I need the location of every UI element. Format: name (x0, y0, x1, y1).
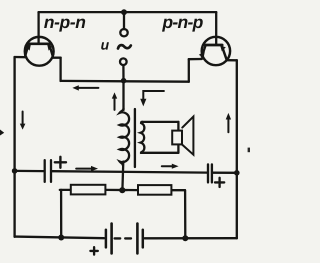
wire left resistor drop (60, 190, 62, 238)
capacitor C2 plus sign (215, 178, 224, 187)
transistor Q1 collector slant (49, 44, 53, 56)
wire speaker loop right upper (177, 122, 179, 131)
wire Q1 right lead (52, 57, 60, 59)
wire Q2 left lead (189, 58, 202, 61)
battery B dash 1 (115, 237, 121, 239)
arrow current down left rail (22, 112, 24, 125)
wire vertical Q2 to mid node (188, 59, 190, 81)
wire bottom right segment (145, 237, 237, 239)
source terminal upper (120, 29, 127, 36)
arrow current right under speaker (162, 165, 173, 167)
wire speaker loop right lower (177, 144, 179, 153)
scan speck right edge (248, 148, 250, 153)
transistor Q1 base bar (28, 42, 50, 45)
transistor Q2 collector arrow (220, 46, 226, 52)
capacitor C1 plus sign (55, 157, 66, 168)
resistor R2 (138, 185, 171, 195)
label n-p-n (44, 19, 85, 32)
wire base lead Q2 (215, 12, 217, 45)
wire resistor row left lead (60, 189, 71, 191)
wire resistor row middle lead (105, 189, 138, 192)
node top rail junction (121, 9, 127, 15)
battery B short plate right (142, 230, 145, 248)
wire Q1 left lead (15, 56, 27, 59)
speaker LS cone (182, 117, 193, 155)
capacitor C2 plate right (211, 164, 213, 182)
resistor R1 (71, 185, 106, 195)
source terminal lower (120, 58, 127, 65)
wire primary top lead (122, 81, 124, 110)
node right rail capacitor junction (234, 170, 240, 176)
source tilde symbol (118, 45, 131, 48)
wire capacitor row middle (52, 171, 207, 172)
wire capacitor row right (213, 172, 237, 174)
battery B long plate right (136, 224, 139, 254)
wire capacitor row left (15, 170, 44, 173)
transformer T secondary winding (141, 122, 145, 153)
capacitor C1 plate left (44, 160, 46, 182)
wire stub to source top terminal (123, 12, 125, 29)
wire speaker loop top (142, 121, 179, 123)
transistor Q2 emitter arrow (199, 52, 205, 58)
arrow current corner down right (143, 91, 164, 100)
node resistor center junction (119, 187, 125, 193)
wire right rail (236, 60, 238, 238)
wire top rail (39, 11, 217, 13)
transistor Q2 p-n-p circle (202, 37, 230, 65)
transistor Q2 emitter slant (202, 45, 206, 57)
transformer T core (134, 109, 136, 167)
scan speck left edge (0, 130, 4, 136)
transistor Q1 emitter arrow (25, 45, 30, 51)
wire vertical Q1 to mid node (59, 58, 61, 81)
wire stub from source bottom terminal (122, 65, 124, 81)
wire base lead Q1 (37, 12, 39, 43)
wire speaker loop bottom (141, 152, 178, 154)
transistor Q1 emitter slant (25, 44, 28, 56)
wire bottom left segment (15, 237, 104, 239)
wire left rail (13, 57, 15, 237)
speaker LS driver box (172, 131, 182, 145)
label u (101, 42, 109, 50)
arrow current up right rail (227, 119, 229, 133)
arrow current up primary (114, 98, 116, 110)
wire right resistor drop (184, 190, 186, 238)
label p-n-p (162, 19, 203, 32)
transistor Q2 collector slant (222, 45, 227, 59)
battery B plus sign (90, 247, 97, 254)
node mid junction (121, 78, 127, 84)
capacitor C2 plate left (207, 164, 209, 182)
transistor Q1 n-p-n circle (25, 37, 54, 66)
wire Q2 right lead (227, 59, 237, 61)
battery B short plate left (105, 230, 108, 248)
arrow current left mid wire (78, 87, 99, 89)
wire resistor row right lead (171, 189, 185, 191)
arrow current right after C1 (76, 168, 92, 170)
transistor Q2 base bar (205, 44, 222, 47)
node left rail capacitor junction (12, 168, 18, 174)
wire primary bottom lead (121, 162, 124, 191)
transformer T primary winding (120, 109, 129, 166)
node bottom left junction (58, 235, 64, 241)
node bottom right junction (182, 235, 188, 241)
battery B long plate left (110, 224, 113, 254)
wire mid horizontal (61, 80, 189, 83)
transistor Q1 collector arrow (47, 45, 52, 51)
capacitor C1 plate right (50, 160, 52, 182)
battery B dash 2 (125, 237, 131, 239)
